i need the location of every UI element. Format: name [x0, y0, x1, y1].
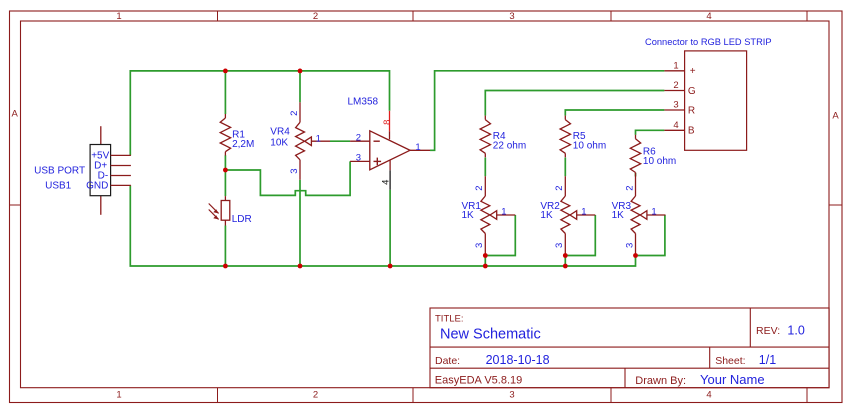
svg-text:3: 3 [474, 243, 485, 248]
svg-text:2: 2 [624, 185, 635, 190]
svg-text:+: + [690, 66, 696, 77]
wire VR4 wiper to opamp pin2 [330, 140, 350, 142]
VR2 pin3 number [554, 243, 565, 248]
wire VR2 join to bus [564, 256, 566, 267]
label R5 [573, 131, 586, 142]
vr4 pin3 number [289, 168, 300, 173]
svg-text:Date:: Date: [435, 355, 460, 367]
vr4 pin1 number [316, 133, 321, 144]
label R4 value [493, 141, 526, 152]
wire R5 to VR2 [564, 158, 566, 177]
usb pin name D- [98, 171, 109, 182]
opamp pin1 number [415, 142, 420, 153]
title value New Schematic [440, 326, 541, 342]
wire opamp out to connector pin1 [430, 71, 664, 151]
wire R6 to VR3 [635, 173, 637, 177]
wire VR1 wiper loop [485, 215, 515, 256]
usb pin name D+ [94, 161, 107, 172]
VR1 pin1 number [501, 206, 506, 217]
node bus LDR junction [223, 264, 228, 269]
connector pin2 number [673, 80, 678, 91]
VR1 pin3 number [474, 243, 485, 248]
svg-text:8: 8 [382, 120, 393, 125]
label VR2 value [540, 210, 553, 221]
svg-text:1: 1 [415, 142, 420, 153]
node top bus R1 junction [223, 69, 228, 74]
wire GND bus [130, 185, 635, 266]
svg-text:REV:: REV: [756, 325, 780, 337]
node VR2 wiper junction [563, 253, 568, 258]
svg-text:GND: GND [86, 181, 108, 192]
label VR1 value [462, 210, 475, 221]
svg-text:Sheet:: Sheet: [715, 355, 745, 367]
wire opamp pin4 to bus [389, 190, 391, 266]
sheet label [715, 355, 745, 367]
svg-text:1: 1 [316, 133, 321, 144]
label R6 value [643, 156, 676, 167]
label VR1 [462, 201, 482, 212]
svg-text:1: 1 [116, 390, 121, 401]
connector P1 RGB LED strip body [664, 51, 746, 150]
svg-text:A: A [832, 111, 839, 122]
svg-text:EasyEDA V5.8.19: EasyEDA V5.8.19 [435, 374, 522, 386]
easyeda version [435, 374, 522, 386]
svg-text:1/1: 1/1 [759, 353, 776, 367]
svg-text:1K: 1K [612, 210, 625, 221]
connector pin4 number [673, 120, 678, 131]
svg-text:LM358: LM358 [348, 97, 379, 108]
svg-text:4: 4 [706, 11, 711, 22]
wire VR3 wiper loop [636, 215, 665, 256]
wire R4 to VR1 [484, 158, 486, 177]
svg-text:New Schematic: New Schematic [440, 326, 541, 342]
VR3 pin2 number [624, 185, 635, 190]
svg-text:B: B [688, 126, 695, 137]
svg-text:USB1: USB1 [45, 180, 72, 191]
drawn-by value Your Name [700, 372, 765, 387]
date value [486, 353, 550, 367]
potentiometer VR3 [631, 176, 665, 255]
svg-text:22 ohm: 22 ohm [493, 141, 526, 152]
usb pin name +5V [91, 151, 109, 162]
svg-text:4: 4 [673, 120, 678, 131]
resistor R6 [630, 135, 640, 177]
wire connector pin2 to R4 [485, 91, 664, 116]
wire +5V to VR4 [299, 71, 301, 102]
connector pin3 number [673, 100, 678, 111]
svg-text:1: 1 [673, 60, 678, 71]
potentiometer VR4 [296, 102, 330, 180]
svg-text:1K: 1K [540, 210, 553, 221]
label VR2 [540, 201, 560, 212]
date label [435, 355, 460, 367]
wire connector pin3 to R5 [565, 110, 664, 116]
label VR3 value [612, 210, 625, 221]
label 10K [270, 137, 288, 148]
photoresistor LDR [209, 196, 230, 225]
wire VR4 pin3 to bus [299, 180, 301, 266]
svg-text:10 ohm: 10 ohm [643, 156, 676, 167]
opamp pin2 number [356, 133, 361, 144]
node VR1 wiper junction [483, 253, 488, 258]
connector pin name G [688, 86, 696, 97]
svg-text:1: 1 [651, 206, 656, 217]
node R1-LDR junction [223, 168, 228, 173]
wire connector pin4 to R6 [636, 130, 665, 135]
svg-text:Drawn By:: Drawn By: [635, 375, 686, 387]
node bus VR1 junction [483, 264, 488, 269]
wire +5V bus [130, 71, 389, 155]
svg-text:2: 2 [289, 111, 300, 116]
opamp pin4 gnd stub [389, 170, 391, 190]
svg-text:1: 1 [116, 11, 121, 22]
wire VR2 wiper loop [565, 215, 595, 256]
resistor R4 [480, 116, 490, 158]
VR2 pin1 number [581, 206, 586, 217]
rev label [756, 325, 780, 337]
label VR4 [270, 126, 290, 137]
svg-text:2: 2 [313, 11, 318, 22]
connector title [645, 37, 772, 47]
label 2,2M [232, 139, 254, 150]
svg-text:Your Name: Your Name [700, 372, 765, 387]
svg-text:3: 3 [509, 390, 514, 401]
svg-text:1: 1 [581, 206, 586, 217]
VR3 pin1 number [651, 206, 656, 217]
opamp pin4 number [381, 180, 392, 185]
svg-text:10 ohm: 10 ohm [573, 141, 606, 152]
potentiometer VR2 [561, 176, 595, 255]
drawn-by label [635, 375, 686, 387]
svg-text:TITLE:: TITLE: [435, 313, 464, 324]
connector pin name + [690, 66, 696, 77]
resistor R5 [560, 116, 570, 158]
wire LDR to bus [224, 226, 226, 267]
svg-text:4: 4 [381, 180, 392, 185]
label USB1 [45, 180, 72, 191]
label USB PORT [34, 166, 85, 177]
label VR3 [612, 201, 632, 212]
svg-text:2: 2 [313, 390, 318, 401]
title block grid [430, 308, 829, 388]
label LDR [232, 214, 252, 225]
node bus opamp junction [388, 264, 393, 269]
usb connector J-USB1 body [90, 126, 131, 215]
node top bus VR4 junction [298, 69, 303, 74]
svg-text:3: 3 [356, 153, 361, 164]
resistor R1 [220, 114, 230, 156]
svg-text:3: 3 [554, 243, 565, 248]
connector pin name B [688, 126, 695, 137]
wire VR1 join to bus [484, 256, 486, 267]
svg-text:3: 3 [673, 100, 678, 111]
label R4 [493, 131, 506, 142]
title label [435, 313, 464, 324]
svg-text:10K: 10K [270, 137, 288, 148]
svg-text:R: R [688, 105, 695, 116]
rev value 1.0 [787, 324, 804, 338]
label R1 [232, 130, 245, 141]
svg-text:3: 3 [289, 168, 300, 173]
svg-text:A: A [12, 109, 19, 120]
sheet value 1/1 [759, 353, 776, 367]
connector pin name R [688, 105, 695, 116]
label R5 value [573, 141, 606, 152]
node bus VR2 junction [563, 264, 568, 269]
svg-text:2: 2 [356, 133, 361, 144]
svg-text:USB PORT: USB PORT [34, 166, 85, 177]
wire +5V to R1 [224, 71, 226, 114]
svg-text:1: 1 [501, 206, 506, 217]
VR1 pin2 number [474, 185, 485, 190]
potentiometer VR1 [481, 176, 515, 255]
svg-text:1.0: 1.0 [787, 324, 804, 338]
svg-text:2: 2 [673, 80, 678, 91]
svg-text:2: 2 [474, 185, 485, 190]
svg-text:LDR: LDR [232, 214, 252, 225]
connector pin1 number [673, 60, 678, 71]
label R6 [643, 146, 656, 157]
op-amp U1 LM358 [350, 131, 430, 171]
node VR3 wiper junction [633, 253, 638, 258]
wire R1 junction to opamp pin3 [225, 161, 350, 195]
wire R1 to LDR [224, 155, 226, 196]
node bus VR4 junction [298, 264, 303, 269]
vr4 pin2 number [289, 111, 300, 116]
svg-text:2018-10-18: 2018-10-18 [486, 353, 550, 367]
svg-text:2,2M: 2,2M [232, 139, 254, 150]
svg-text:Connector to RGB LED STRIP: Connector to RGB LED STRIP [645, 37, 772, 47]
svg-text:3: 3 [509, 11, 514, 22]
svg-text:4: 4 [706, 390, 711, 401]
label LM358 [348, 97, 379, 108]
svg-text:1K: 1K [462, 210, 475, 221]
usb pin name GND [86, 181, 108, 192]
svg-text:VR4: VR4 [270, 126, 290, 137]
svg-text:G: G [688, 86, 696, 97]
opamp pin3 number [356, 153, 361, 164]
opamp pin8 power stub [389, 111, 391, 131]
svg-text:3: 3 [624, 243, 635, 248]
VR3 pin3 number [624, 243, 635, 248]
opamp pin8 number [382, 120, 393, 125]
VR2 pin2 number [554, 185, 565, 190]
svg-text:2: 2 [554, 185, 565, 190]
